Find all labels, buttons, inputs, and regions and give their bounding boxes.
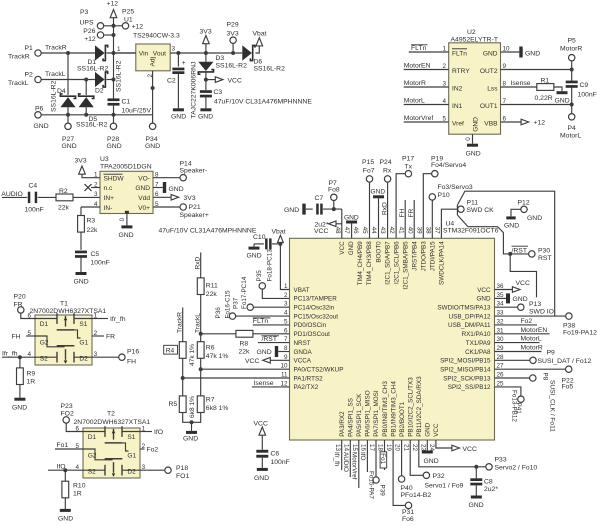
pin numbers U3 [94, 172, 159, 208]
svg-text:GND: GND [513, 296, 528, 303]
svg-text:JRST/PB4: JRST/PB4 [412, 241, 419, 271]
svg-text:RST: RST [538, 255, 552, 262]
wire P15 to pin45 [369, 182, 371, 238]
ground U3 pad [119, 225, 134, 239]
svg-text:Servo1 / Fo9: Servo1 / Fo9 [425, 483, 464, 490]
wire P10 to pin38 [431, 200, 433, 238]
diode D4 SS16L-R2 [51, 80, 76, 112]
svg-text:23: 23 [419, 444, 426, 452]
capacitor C7 2u2* [315, 195, 342, 228]
resistor R4 47k 1% [179, 342, 196, 366]
svg-text:U4: U4 [446, 221, 455, 228]
wire ground rail [41, 115, 152, 123]
svg-text:R1: R1 [541, 78, 550, 85]
svg-text:U2: U2 [467, 29, 476, 36]
connector P36 Fo16-C15 [215, 290, 236, 319]
connector P7 Fo8 [328, 180, 340, 211]
ground U3 pin7 [153, 182, 184, 193]
connector P27 GND [62, 115, 77, 150]
svg-text:SPI2_SS/PB12: SPI2_SS/PB12 [448, 384, 491, 391]
capacitor C2 TAJC227K006RNJ [167, 51, 198, 119]
svg-text:PA0/CTS2/WKUP: PA0/CTS2/WKUP [294, 366, 344, 373]
svg-text:TrackL: TrackL [45, 71, 66, 78]
connector P41 Fo13-PB12 [495, 387, 525, 422]
svg-text:38: 38 [424, 227, 431, 235]
svg-text:P38: P38 [563, 322, 575, 329]
svg-text:Fo15-PA7: Fo15-PA7 [368, 471, 375, 499]
svg-text:44: 44 [370, 227, 377, 235]
wire pin11 PA1 [183, 377, 290, 379]
ground P12 [504, 216, 519, 229]
connector P10 Fo3/Servo3 [429, 184, 473, 200]
svg-text:Servo2 / Fo10: Servo2 / Fo10 [495, 465, 538, 472]
svg-text:FO1: FO1 [176, 473, 189, 480]
ground pin23 [422, 440, 439, 465]
svg-text:PC15/Osc32out: PC15/Osc32out [294, 313, 339, 320]
connector P4 MotorL [560, 105, 581, 140]
svg-text:RTRY: RTRY [452, 68, 470, 75]
svg-text:Ifr_fh: Ifr_fh [333, 452, 340, 467]
wire P17 to pin42 [396, 174, 405, 239]
svg-text:17: 17 [368, 444, 375, 452]
svg-text:FLTn: FLTn [253, 318, 269, 325]
resistor R8 22k [236, 330, 253, 355]
svg-text:VCC: VCC [463, 446, 477, 453]
svg-text:Ifr_fh: Ifr_fh [110, 316, 126, 323]
svg-text:Rx: Rx [383, 167, 392, 174]
svg-text:SS16L-R2: SS16L-R2 [77, 65, 109, 72]
net Isense at pin12 [252, 380, 290, 387]
wire R2 to IN+ [73, 196, 100, 198]
svg-text:P8: P8 [542, 373, 549, 381]
wire MotorL [404, 98, 449, 105]
svg-text:PD0/OSCin: PD0/OSCin [294, 322, 327, 329]
svg-text:SUSI_DAT / Fo12: SUSI_DAT / Fo12 [538, 358, 592, 365]
svg-text:PFo14-B2: PFo14-B2 [401, 492, 432, 499]
svg-text:3: 3 [94, 191, 98, 198]
wire pin10 PA0 [201, 368, 290, 370]
ground dividers [183, 431, 198, 442]
svg-text:S2: S2 [40, 356, 48, 363]
power Vbat at VBAT [272, 229, 286, 246]
svg-text:TrackL: TrackL [8, 80, 29, 87]
connector P30 RST [529, 247, 552, 262]
svg-text:Tx: Tx [405, 164, 413, 171]
svg-text:GND: GND [254, 475, 269, 482]
svg-text:AUDIO: AUDIO [342, 452, 349, 472]
node D1/D2 cathodes [112, 51, 116, 82]
svg-text:D1: D1 [88, 434, 97, 441]
svg-text:Fo16-C15: Fo16-C15 [224, 290, 231, 318]
connector P13 SWD IO [495, 301, 554, 316]
ground pin47 [344, 214, 359, 238]
svg-text:Fo19-PA12: Fo19-PA12 [563, 329, 597, 336]
svg-text:P16: P16 [127, 349, 139, 356]
wire D2 cathode [107, 79, 114, 81]
svg-text:FH: FH [127, 359, 136, 366]
svg-text:G2: G2 [40, 340, 49, 347]
svg-text:C5: C5 [91, 251, 100, 258]
net /RST to P30 [512, 246, 529, 254]
connector P25 +12 [122, 9, 143, 31]
wire SWD route vertical [456, 205, 458, 215]
svg-text:JTDI/PA15: JTDI/PA15 [430, 241, 437, 271]
ground C5 [74, 272, 89, 286]
svg-text:P24: P24 [380, 159, 392, 166]
ground BOOT0 pin44 [371, 188, 386, 238]
svg-text:GND: GND [12, 405, 27, 412]
connector P2 TrackL [8, 72, 41, 88]
svg-text:CK1/PA8: CK1/PA8 [465, 349, 491, 356]
svg-text:P9: P9 [547, 350, 556, 357]
svg-text:VBB: VBB [484, 121, 498, 128]
svg-text:MotorR: MotorR [521, 345, 543, 352]
svg-text:100nF: 100nF [271, 459, 290, 466]
svg-text:2N7002DWH6327XTSA1: 2N7002DWH6327XTSA1 [74, 419, 151, 426]
svg-text:GND: GND [504, 222, 519, 229]
svg-text:USB_DP/PA12: USB_DP/PA12 [449, 313, 491, 320]
svg-text:GND: GND [145, 143, 160, 150]
svg-text:GND: GND [425, 422, 432, 436]
svg-text:GND: GND [135, 185, 150, 192]
wire FLTn to U2 [409, 45, 449, 52]
wire pin33 to P38 [495, 315, 566, 317]
svg-text:S2: S2 [88, 469, 96, 476]
svg-text:1R: 1R [27, 378, 36, 385]
svg-text:3V3: 3V3 [200, 29, 212, 36]
connector P33 Servo2 / Fo10 [486, 457, 538, 472]
svg-text:RX1/PA10: RX1/PA10 [462, 331, 491, 338]
svg-text:GND: GND [424, 458, 439, 465]
svg-text:GND: GND [477, 296, 491, 303]
ground sideways at C7 [284, 204, 313, 215]
svg-text:Fo1: Fo1 [379, 453, 386, 464]
svg-text:FR: FR [408, 208, 415, 217]
net Fo2 pin32 [495, 318, 538, 325]
wire P36 to pin4 [236, 315, 290, 317]
svg-text:13: 13 [334, 444, 341, 452]
svg-text:8: 8 [284, 345, 288, 352]
wire P3/P25 [104, 24, 123, 28]
net FH stub pin41 [399, 200, 406, 238]
svg-text:SWD CK: SWD CK [467, 207, 495, 214]
svg-text:GND: GND [169, 186, 184, 193]
ground R1 [555, 91, 570, 104]
svg-text:0: 0 [465, 137, 472, 141]
capacitor C1 10uF/25V [108, 98, 152, 114]
wire SWD route to P38 [457, 191, 554, 316]
svg-text:P13: P13 [529, 301, 541, 308]
svg-text:SPI2_MOSI/PB15: SPI2_MOSI/PB15 [440, 358, 491, 365]
svg-text:IfO: IfO [154, 429, 163, 436]
svg-text:GNDA: GNDA [294, 349, 313, 356]
net RxD stub [195, 253, 202, 278]
connector P12 GND [511, 200, 542, 222]
wire IN- to R3 [81, 207, 100, 216]
svg-text:Fo6: Fo6 [402, 516, 414, 521]
svg-text:45: 45 [361, 227, 368, 235]
svg-text:22k: 22k [58, 204, 70, 211]
svg-text:GND: GND [555, 98, 570, 105]
svg-text:PA7/SPI1_MOSI: PA7/SPI1_MOSI [373, 390, 380, 437]
svg-text:FH: FH [12, 334, 21, 341]
svg-text:D2: D2 [127, 469, 136, 476]
connector P39 Fo15-PA7 [368, 440, 386, 499]
wire P37 to pin3 [253, 306, 289, 308]
svg-text:D6: D6 [254, 59, 263, 66]
svg-text:I2C1_SCL/PB6: I2C1_SCL/PB6 [393, 241, 400, 284]
node ground rail joints [66, 113, 116, 117]
connector P31 Fo6 [393, 440, 414, 523]
power 3V3 arrow [200, 29, 212, 54]
connector P21 Speaker+ [153, 204, 209, 219]
U4 left pin labels 1-12 [280, 283, 343, 391]
wire R3 to C5 [80, 232, 82, 250]
svg-text:22k: 22k [206, 291, 218, 298]
svg-text:P28: P28 [107, 136, 119, 143]
connector P34 GND [145, 123, 160, 150]
wire route to /RST [457, 215, 528, 254]
svg-text:P4: P4 [568, 125, 577, 132]
svg-text:GND: GND [119, 232, 134, 239]
svg-text:P29: P29 [227, 22, 239, 29]
svg-text:SWD IO: SWD IO [529, 309, 554, 316]
power VCC arrow [204, 77, 242, 85]
svg-text:1: 1 [117, 46, 121, 53]
svg-text:P27: P27 [62, 136, 74, 143]
svg-text:D2: D2 [95, 88, 104, 95]
ground U2 pad [466, 144, 481, 158]
svg-text:Isense: Isense [254, 380, 274, 387]
svg-text:3V3: 3V3 [184, 195, 196, 202]
power VCC pin36 [495, 280, 530, 292]
connector P14 Speaker- [153, 161, 207, 181]
svg-text:Fo2: Fo2 [147, 446, 159, 453]
net AUDIO input [1, 191, 27, 198]
resistor R2 22k [56, 188, 73, 211]
connector P23 FO2 [61, 403, 84, 432]
ground C6 [254, 468, 269, 482]
svg-text:GND: GND [107, 143, 122, 150]
svg-text:T2: T2 [107, 410, 115, 417]
svg-text:10: 10 [280, 363, 288, 370]
svg-text:GND: GND [34, 123, 49, 130]
svg-text:G2: G2 [88, 453, 97, 460]
wire TrackL [41, 80, 95, 95]
svg-text:P21: P21 [189, 204, 201, 211]
svg-text:+12: +12 [107, 1, 119, 8]
svg-text:I2C1_SMBA/PB5: I2C1_SMBA/PB5 [402, 241, 409, 290]
svg-text:FLTn: FLTn [452, 51, 467, 58]
svg-text:+12: +12 [84, 36, 96, 43]
svg-text:41: 41 [397, 227, 404, 235]
svg-text:R6: R6 [206, 345, 215, 352]
svg-text:C10: C10 [253, 234, 266, 241]
svg-text:TrackR: TrackR [177, 312, 184, 333]
pin 0 U2 thermal pad [465, 134, 473, 144]
svg-text:2u2*: 2u2* [484, 486, 498, 493]
svg-text:Isense: Isense [511, 80, 531, 87]
node TrackR [45, 45, 70, 56]
net MotorEN pin31 [495, 327, 550, 334]
net MotorR pin29 [495, 345, 543, 352]
svg-text:P17: P17 [402, 156, 414, 163]
diode D6 SS16L-R2 [242, 45, 285, 72]
svg-text:40: 40 [406, 227, 413, 235]
svg-text:TPA2005D1DGN: TPA2005D1DGN [100, 163, 152, 170]
wire divider ground join [183, 413, 201, 431]
svg-text:GND: GND [348, 241, 355, 255]
svg-text:SWDCLK/PA14: SWDCLK/PA14 [439, 241, 446, 285]
svg-text:D3: D3 [216, 55, 225, 62]
connector P18 FO1 [140, 465, 189, 480]
svg-text:3: 3 [442, 80, 446, 87]
wire R4 to pin11 node [181, 358, 185, 396]
svg-text:SPI2_SCK/PB13: SPI2_SCK/PB13 [443, 375, 491, 382]
svg-text:R5: R5 [169, 401, 178, 408]
svg-text:33: 33 [497, 310, 505, 317]
designator R4 boxed [164, 345, 178, 354]
svg-text:Fo18-PC13: Fo18-PC13 [266, 249, 273, 282]
svg-text:P41: P41 [515, 403, 522, 415]
ground R10 [58, 509, 73, 523]
svg-text:2: 2 [442, 63, 446, 70]
svg-text:JTDO/PB3: JTDO/PB3 [421, 241, 428, 272]
capacitor C9 100nF [566, 70, 597, 105]
svg-text:29: 29 [497, 345, 505, 352]
svg-text:39: 39 [415, 227, 422, 235]
svg-text:0,22R: 0,22R [535, 95, 553, 102]
svg-text:R11: R11 [206, 283, 218, 290]
svg-text:R8: R8 [240, 341, 249, 348]
net FR at T1 pin2 [92, 333, 115, 340]
svg-text:18: 18 [377, 444, 384, 452]
svg-text:P1: P1 [25, 45, 34, 52]
svg-text:MotorL: MotorL [521, 336, 542, 343]
svg-text:10: 10 [503, 45, 511, 52]
connector P37 Fo17-PC14 [233, 276, 254, 310]
svg-text:Vref: Vref [452, 121, 464, 128]
svg-text:TrackL: TrackL [195, 313, 202, 333]
svg-text:P3: P3 [80, 9, 89, 16]
connector P8 SUSI_CLK / Fo11 [495, 373, 556, 433]
svg-text:GND: GND [171, 114, 186, 121]
svg-text:Speaker+: Speaker+ [180, 212, 209, 219]
svg-text:USB_DM/PA11: USB_DM/PA11 [448, 322, 491, 329]
transistor T1 2N7002DWH6327XTSA1 [27, 301, 106, 366]
svg-text:MotorVref: MotorVref [350, 452, 357, 480]
svg-text:P20: P20 [14, 293, 26, 300]
svg-text:5: 5 [442, 115, 446, 122]
svg-text:VCC: VCC [339, 241, 346, 255]
svg-text:R10: R10 [73, 482, 86, 489]
wire R8 to pin6 [253, 333, 290, 335]
svg-text:MotorL: MotorL [560, 133, 581, 140]
svg-text:I2C1_SDA/PB7: I2C1_SDA/PB7 [384, 241, 391, 285]
connector P35 Fo18-PC13 [256, 249, 273, 289]
svg-text:4: 4 [442, 98, 446, 105]
svg-text:6: 6 [503, 115, 507, 122]
svg-text:GND: GND [473, 117, 480, 132]
connector P5 MotorR [560, 38, 582, 70]
svg-text:P26: P26 [83, 28, 95, 35]
svg-text:TS2940CW-3.3: TS2940CW-3.3 [133, 32, 180, 39]
svg-text:SS16L-R2: SS16L-R2 [76, 122, 108, 129]
svg-text:20: 20 [394, 444, 401, 452]
ground C10 [247, 247, 262, 260]
svg-text:MotorR: MotorR [560, 45, 582, 52]
svg-text:FH: FH [399, 208, 406, 217]
svg-text:V0+: V0+ [138, 205, 150, 212]
net Ifr_fh pin13 [333, 440, 342, 470]
net MotorVref pin15 [350, 440, 359, 488]
ground GNDA pin8 [257, 346, 290, 357]
capacitor C4 100nF [25, 183, 44, 214]
wire D1 cathode [107, 52, 136, 54]
svg-text:D1: D1 [40, 321, 49, 328]
resistor R1 0,22R [535, 78, 554, 103]
svg-text:GND: GND [371, 188, 386, 195]
net Ifr_fh at T1 pin1 [92, 316, 126, 323]
svg-text:21: 21 [402, 444, 409, 452]
svg-text:9: 9 [503, 63, 507, 70]
ground pin35 [495, 293, 528, 303]
svg-text:35: 35 [497, 292, 505, 299]
svg-text:TrackR: TrackR [8, 54, 30, 61]
svg-text:GND: GND [483, 51, 498, 58]
svg-text:P10: P10 [438, 192, 450, 199]
connector P19 Fo4/Servo4 [431, 156, 466, 177]
diode D1 SS16L-R2 [77, 45, 109, 72]
svg-text:47k 1%: 47k 1% [206, 353, 229, 360]
wire MotorVref [404, 115, 449, 122]
net AUDIO pin14 [342, 440, 351, 477]
capacitor C6 100nF with VCC [254, 421, 290, 468]
svg-text:100nF: 100nF [578, 92, 597, 99]
svg-text:2: 2 [284, 292, 288, 299]
net TrackR stub [177, 308, 184, 342]
svg-text:22k: 22k [87, 227, 99, 234]
connector P15 Fo7 [362, 159, 375, 182]
svg-text:47: 47 [343, 227, 350, 235]
svg-text:OUT2: OUT2 [480, 68, 498, 75]
svg-text:C7: C7 [315, 195, 324, 202]
svg-text:TX1/PA9: TX1/PA9 [466, 340, 491, 347]
svg-text:P5: P5 [568, 38, 577, 45]
svg-text:VCC: VCC [433, 423, 440, 437]
svg-text:R4: R4 [166, 347, 175, 354]
svg-text:Fo1: Fo1 [57, 442, 69, 449]
connector P40 PFo14-B2 [398, 440, 431, 499]
svg-text:R7: R7 [206, 397, 215, 404]
connector P20 FR [14, 293, 36, 318]
svg-text:NRST: NRST [294, 340, 311, 347]
svg-text:14: 14 [342, 444, 349, 452]
svg-text:PC14/Osc32in: PC14/Osc32in [294, 305, 335, 312]
svg-text:VCCA: VCCA [294, 358, 312, 365]
svg-text:GND: GND [466, 150, 481, 157]
svg-text:22k: 22k [239, 349, 251, 356]
svg-text:Vbat: Vbat [253, 31, 267, 38]
svg-text:SS16L-R2: SS16L-R2 [216, 63, 248, 70]
svg-text:42: 42 [388, 227, 395, 235]
svg-text:GND: GND [257, 349, 272, 356]
svg-text:Fo4/Servo4: Fo4/Servo4 [431, 162, 466, 169]
svg-text:GND: GND [198, 114, 213, 121]
svg-text:22: 22 [411, 444, 418, 452]
connector P11 SWD CK [458, 199, 494, 214]
svg-text:P18: P18 [176, 465, 188, 472]
